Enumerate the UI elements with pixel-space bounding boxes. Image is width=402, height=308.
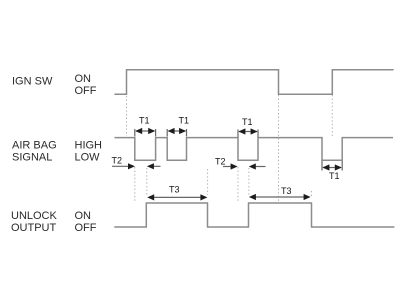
svg-text:HIGH: HIGH [75,140,103,152]
svg-text:T1: T1 [139,116,150,126]
T3 pulse 1 arrow [149,196,206,198]
wire AIR BAG SIGNAL waveform [115,138,394,161]
svg-text:T2: T2 [112,156,123,166]
dotted extension above unlock rising edge 1 [146,168,148,195]
svg-text:T3: T3 [281,186,292,196]
dotted extension below IGN falling edge [278,95,280,202]
svg-text:ON: ON [75,210,92,222]
T1 pulse 4 arrow [323,167,341,169]
svg-text:AIR BAG: AIR BAG [12,140,57,152]
svg-text:LOW: LOW [75,152,101,164]
dotted extension below air bag falling edge 3 [237,167,239,202]
T2 pulse 1 right arrow (points left at unlock rising edge) [152,165,161,167]
T1 pulse 2 extension ticks [166,129,168,137]
T1 pulse 1 arrow [136,130,155,132]
T2 pulse 1 left arrow (points right at falling edge) [112,165,130,167]
T1 pulse 4 extension ticks [321,161,323,171]
svg-text:SIGNAL: SIGNAL [12,152,52,164]
svg-text:ON: ON [75,73,92,85]
svg-text:T1: T1 [242,117,253,127]
T1 pulse 3 extension ticks [237,130,239,138]
wire UNLOCK OUTPUT waveform [114,203,394,227]
svg-text:OFF: OFF [75,85,97,97]
T2 pulse 3 right arrow (points left at unlock rising edge) [254,166,266,168]
dotted extension below IGN rising edge 2 [331,95,333,136]
svg-text:T3: T3 [169,185,180,195]
svg-text:T1: T1 [329,171,340,181]
svg-text:UNLOCK: UNLOCK [11,210,58,222]
wire IGN SW waveform [114,70,393,94]
dotted extension above unlock falling edge 2 [311,191,313,196]
dotted extension below air bag falling edge 1 [134,167,136,202]
svg-text:OFF: OFF [75,222,97,234]
dotted extension above unlock rising edge 2 [248,168,250,195]
T1 pulse 3 arrow [239,131,257,133]
svg-text:T2: T2 [215,157,226,167]
dotted extension below IGN rising edge 1 [126,96,128,136]
svg-text:OUTPUT: OUTPUT [11,222,57,234]
T2 pulse 3 left arrow (points right at falling edge) [223,166,232,168]
svg-text:T1: T1 [179,116,190,126]
T3 pulse 2 arrow [251,196,310,198]
dotted extension above unlock falling edge 1 [207,169,209,195]
T1 pulse 2 arrow [169,130,186,132]
svg-text:IGN SW: IGN SW [12,76,53,88]
T1 pulse 1 extension ticks [134,129,136,137]
